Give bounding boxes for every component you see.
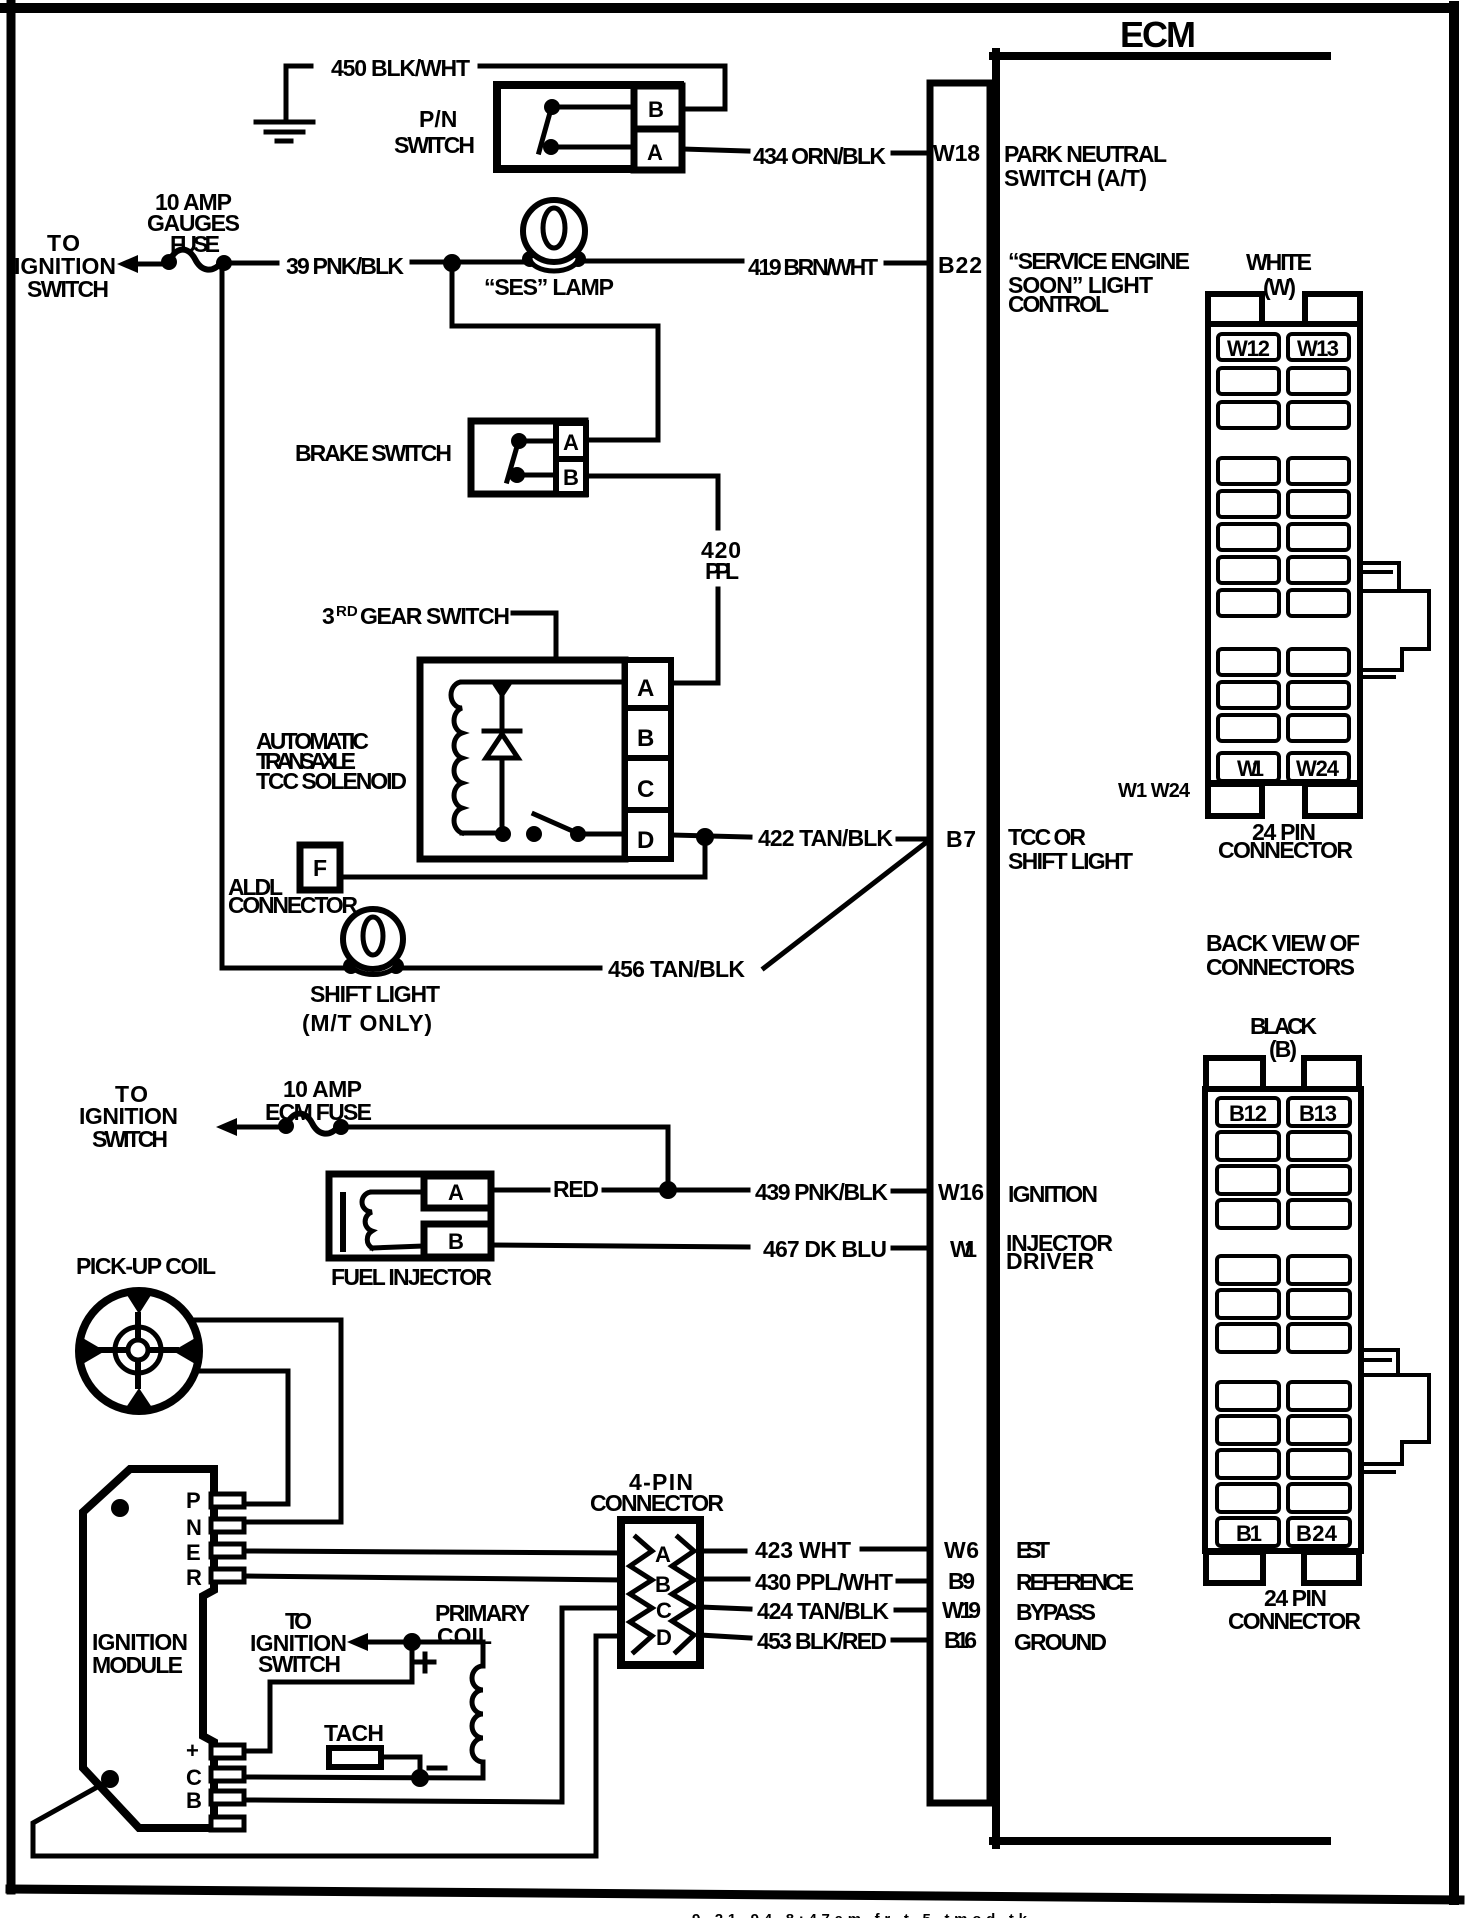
P/N switch wire contact B (557, 105, 634, 110)
svg-text:REFERENCE: REFERENCE (1016, 1569, 1134, 1595)
wire 467 DK BLU from pin B (491, 1245, 748, 1247)
wire 419 BRN/WHT stub to pin B22 (886, 261, 930, 266)
black connector cells (1217, 1098, 1350, 1546)
wire ALDL branch (341, 837, 705, 877)
wire 422 TAN/BLK stub to pin B7 (898, 837, 930, 842)
TCC solenoid pin dividers A/B/C/D (625, 705, 671, 711)
svg-text:GROUND: GROUND (1014, 1629, 1107, 1655)
ignition module mounting dot upper (111, 1499, 129, 1517)
black connector B bottom tab left (1206, 1552, 1263, 1583)
svg-text:C: C (637, 776, 654, 803)
svg-text:C: C (186, 1765, 202, 1790)
pick-up coil cross horizontal (101, 1347, 176, 1353)
SES lamp bulb circle (523, 200, 585, 262)
pick-up coil pole triangle left (81, 1337, 105, 1365)
fuse F2 10A ECM: left dot (278, 1118, 294, 1134)
SES lamp filament ellipse (543, 208, 565, 248)
svg-text:BYPASS: BYPASS (1016, 1599, 1096, 1625)
3rd gear switch lead wire (513, 613, 556, 795)
svg-text:W19: W19 (942, 1597, 981, 1623)
wire 420 PPL from brake switch B (586, 476, 718, 528)
svg-text:B13: B13 (1299, 1101, 1337, 1126)
junction dot on RED wire (659, 1181, 677, 1199)
TCC solenoid inner bottom wire (462, 831, 505, 836)
4-pin connector box (621, 1520, 700, 1665)
primary coil T1 top lead (412, 1642, 483, 1666)
primary coil T1 winding (472, 1666, 483, 1762)
svg-text:PPL: PPL (705, 558, 739, 584)
fuel injector coil bottom lead (372, 1246, 424, 1248)
page border right / ECM right edge (1449, 6, 1459, 1900)
P/N switch pin B box (634, 86, 682, 129)
svg-text:W18: W18 (933, 140, 980, 166)
svg-text:ECM: ECM (1120, 14, 1196, 55)
svg-text:PICK-UP COIL: PICK-UP COIL (76, 1253, 216, 1279)
P/N switch box (497, 85, 680, 169)
arrow to ignition switch (ECM fuse) (216, 1118, 237, 1136)
wire 420 PPL lower segment to solenoid pin A (671, 589, 718, 683)
module pin tab N (211, 1519, 244, 1532)
wire 453 BLK/RED from connector D (700, 1635, 750, 1638)
arrow to ignition switch (gauges fuse) (117, 255, 138, 273)
svg-text:TCC OR: TCC OR (1008, 824, 1086, 850)
fuel injector coil winding (362, 1192, 372, 1248)
4-pin connector right terminal zigzag (672, 1537, 694, 1652)
svg-text:3: 3 (322, 603, 335, 629)
P/N switch contact lower (543, 139, 559, 155)
pick-up coil pole triangle right (173, 1337, 197, 1365)
svg-text:(M/T ONLY): (M/T ONLY) (302, 1010, 432, 1036)
diode D1 cathode bar (484, 729, 520, 734)
svg-text:B12: B12 (1229, 1101, 1267, 1126)
wire drop from junction to brake switch (452, 263, 658, 440)
svg-text:SHIFT LIGHT: SHIFT LIGHT (310, 981, 440, 1007)
svg-text:424 TAN/BLK: 424 TAN/BLK (757, 1598, 889, 1624)
svg-text:467 DK BLU: 467 DK BLU (763, 1236, 887, 1262)
svg-text:(W): (W) (1263, 274, 1296, 300)
svg-text:C: C (656, 1598, 672, 1623)
fuel injector coil top lead (372, 1190, 424, 1195)
module pin tab E (211, 1544, 244, 1557)
black connector B body (1205, 1089, 1361, 1551)
white connector cells (1218, 334, 1349, 781)
svg-text:P: P (186, 1488, 201, 1513)
white connector W top tab left (1208, 294, 1262, 325)
junction dot 422/ALDL (696, 828, 714, 846)
svg-text:SWITCH: SWITCH (394, 132, 475, 158)
ground G1 stem wire (286, 66, 311, 122)
svg-text:ECM FUSE: ECM FUSE (265, 1099, 372, 1125)
arrow to ignition switch (coil feed) (347, 1633, 368, 1651)
wire tach to junction (381, 1757, 420, 1778)
shift lamp collar arc (351, 965, 396, 975)
svg-text:W24: W24 (1296, 756, 1340, 781)
white connector key notch (1363, 563, 1429, 677)
fuel injector box (329, 1174, 491, 1258)
fuel injector pin A box (424, 1176, 491, 1208)
wire contact to pin D (578, 832, 625, 837)
wire connector pin D riser to module ground (33, 1636, 621, 1856)
svg-text:CONNECTORS: CONNECTORS (1206, 954, 1355, 980)
shift lamp base dot left (343, 958, 359, 974)
svg-text:W1: W1 (1237, 756, 1264, 781)
wire module R to connector pin B (246, 1576, 621, 1580)
svg-text:GEAR SWITCH: GEAR SWITCH (360, 603, 510, 629)
P/N switch pin A box (634, 129, 682, 170)
module pin tab C (211, 1768, 244, 1781)
diode D1 triangle (486, 734, 518, 758)
svg-text:B: B (563, 465, 579, 490)
svg-text:B: B (186, 1788, 202, 1813)
fuse F1 10A gauges: left dot (161, 254, 177, 270)
P/N switch contact upper (544, 99, 560, 115)
fuel injector pin B box (424, 1224, 491, 1257)
svg-text:BRAKE SWITCH: BRAKE SWITCH (295, 440, 452, 466)
black connector B top tab left (1206, 1058, 1263, 1090)
svg-text:FUSE: FUSE (170, 231, 220, 257)
svg-text:B9: B9 (948, 1568, 975, 1594)
wire 453 BLK/RED stub to pin B16 (893, 1638, 930, 1643)
solenoid switch arm (534, 814, 577, 833)
svg-text:SHIFT LIGHT: SHIFT LIGHT (1008, 848, 1133, 874)
svg-text:PARK NEUTRAL: PARK NEUTRAL (1004, 141, 1167, 167)
svg-text:B: B (448, 1229, 464, 1254)
svg-text:B24: B24 (1296, 1521, 1338, 1546)
svg-text:A: A (448, 1180, 464, 1205)
svg-text:BACK VIEW OF: BACK VIEW OF (1206, 930, 1360, 956)
svg-text:422 TAN/BLK: 422 TAN/BLK (758, 825, 893, 851)
junction dot coil + feed (403, 1633, 421, 1651)
svg-text:W12: W12 (1227, 336, 1270, 361)
ECM box top edge (993, 52, 1327, 60)
svg-text:B: B (655, 1572, 671, 1597)
wire connector pin C riser to module B (246, 1608, 621, 1802)
svg-text:“SERVICE ENGINE: “SERVICE ENGINE (1008, 248, 1190, 274)
black connector B bottom tab right (1304, 1552, 1359, 1583)
fuse F1 right dot / junction to shift-light feed (216, 255, 232, 271)
page border bottom (slightly sloped scan) (10, 1889, 1460, 1900)
module pin tab plus (211, 1745, 244, 1758)
svg-text:EST: EST (1016, 1537, 1050, 1563)
black connector B top tab right (1304, 1058, 1359, 1090)
fuel injector body bar (340, 1195, 346, 1249)
module pin tab R (211, 1569, 244, 1582)
ECM box left edge (992, 52, 1000, 1845)
wire 456 TAN/BLK diagonal to pin B7 (764, 841, 928, 968)
brake switch contact upper (511, 433, 527, 449)
svg-text:B: B (637, 725, 654, 752)
brake switch pin B box (556, 459, 586, 494)
module pin tab B (211, 1791, 244, 1804)
svg-text:W13: W13 (1297, 336, 1339, 361)
pick-up coil lower lead to riser (197, 1371, 288, 1504)
pick-up coil upper lead to riser (191, 1320, 341, 1522)
diode junction marker (492, 684, 512, 699)
wire RED from pin A (491, 1188, 548, 1193)
svg-text:W16: W16 (938, 1179, 984, 1205)
svg-text:A: A (655, 1542, 671, 1567)
svg-text:434 ORN/BLK: 434 ORN/BLK (753, 143, 886, 169)
primary coil T1 bottom lead (481, 1762, 486, 1778)
pick-up coil pole triangle bottom (125, 1388, 153, 1409)
svg-text:450 BLK/WHT: 450 BLK/WHT (331, 55, 470, 81)
wire RED to 439 label (604, 1188, 748, 1193)
solenoid contact dot left (495, 826, 511, 842)
wire 439 PNK/BLK stub to pin W16 (893, 1189, 930, 1194)
shift light feed vertical wire (220, 263, 225, 968)
svg-text:A: A (647, 140, 663, 165)
svg-text:419 BRN/WHT: 419 BRN/WHT (748, 254, 878, 280)
svg-text:N: N (186, 1515, 202, 1540)
svg-text:CONTROL: CONTROL (1008, 291, 1109, 317)
wire 434 ORN/BLK left segment (682, 149, 748, 151)
brake switch wire contact B (523, 473, 556, 478)
white connector W top tab right (1305, 294, 1360, 325)
svg-text:RD: RD (336, 603, 358, 620)
plus polarity mark (417, 1654, 434, 1671)
svg-text:SWITCH: SWITCH (27, 276, 109, 302)
svg-text:W6: W6 (944, 1537, 979, 1563)
SES lamp base dot right (570, 251, 586, 267)
svg-text:B1: B1 (1236, 1521, 1262, 1546)
svg-text:456 TAN/BLK: 456 TAN/BLK (608, 956, 745, 982)
wire from ECM fuse to injector feed (345, 1127, 668, 1189)
svg-text:D: D (637, 827, 654, 854)
pick-up coil cross vertical (135, 1315, 141, 1386)
module pin tab P (211, 1494, 244, 1507)
4-pin connector left terminal zigzag (630, 1537, 652, 1652)
pick-up coil pole triangle top (125, 1292, 153, 1314)
module pin tab lower4 (211, 1817, 244, 1830)
svg-text:RED: RED (553, 1176, 599, 1202)
svg-text:CONNECTOR: CONNECTOR (590, 1490, 724, 1516)
wire 424 TAN/BLK from connector C (700, 1607, 750, 1609)
P/N switch arm (539, 109, 551, 152)
pick-up coil center circle (128, 1340, 148, 1360)
svg-text:P/N: P/N (419, 106, 457, 132)
svg-text:W1 W24: W1 W24 (1118, 780, 1191, 802)
wire 419 BRN/WHT from lamp to label (584, 259, 742, 264)
shift lamp bulb circle (343, 909, 403, 969)
pick-up coil inner circle (115, 1327, 161, 1373)
svg-text:CONNECTOR: CONNECTOR (228, 892, 358, 918)
svg-text:A: A (637, 675, 654, 702)
3rd gear switch actuator arrow (546, 782, 566, 806)
svg-text:9-21-94 8:47am fr t 5 tmod: 9-21-94 8:47am fr t 5 tmod tk (692, 1911, 1028, 1918)
svg-text:DRIVER: DRIVER (1006, 1248, 1094, 1274)
brake switch wire contact A (524, 439, 556, 444)
svg-text:W1: W1 (950, 1236, 977, 1262)
svg-text:A: A (563, 430, 579, 455)
ALDL connector pin F box (300, 845, 340, 890)
svg-text:SWITCH (A/T): SWITCH (A/T) (1004, 165, 1147, 191)
solenoid contact dot mid (526, 826, 542, 842)
white connector W bottom tab left (1208, 784, 1262, 816)
svg-text:FUEL INJECTOR: FUEL INJECTOR (331, 1264, 492, 1290)
solenoid contact dot right (570, 826, 586, 842)
svg-text:R: R (186, 1565, 202, 1590)
ECM box bottom edge (993, 1837, 1327, 1845)
svg-text:SWITCH: SWITCH (258, 1651, 341, 1677)
wire 39 PNK/BLK mid segment (412, 260, 524, 265)
wire module E to connector pin A (246, 1551, 621, 1553)
brake switch box (471, 421, 585, 494)
svg-text:F: F (313, 855, 327, 881)
svg-text:423 WHT: 423 WHT (755, 1537, 851, 1563)
TCC solenoid coil winding (451, 682, 462, 833)
wire module C to coil minus (246, 1777, 483, 1778)
shift lamp filament ellipse (363, 917, 383, 955)
P/N switch wire contact A (556, 145, 634, 150)
brake switch contact lower (509, 467, 525, 483)
fuse F1 wavy element (169, 250, 222, 270)
svg-text:SWITCH: SWITCH (92, 1126, 168, 1152)
svg-text:“SES” LAMP: “SES” LAMP (484, 274, 614, 300)
svg-text:TCC SOLENOID: TCC SOLENOID (256, 768, 407, 794)
junction dot on 39 PNK/BLK (443, 254, 461, 272)
ignition module mounting dot lower (101, 1770, 119, 1788)
ignition module U1 body outline (83, 1469, 214, 1828)
svg-text:430 PPL/WHT: 430 PPL/WHT (755, 1569, 893, 1595)
brake switch pin A box (556, 423, 586, 459)
wire 467 DK BLU stub to pin W1 (893, 1246, 930, 1251)
black connector key notch (1364, 1350, 1429, 1472)
svg-text:+: + (186, 1738, 199, 1763)
svg-text:B16: B16 (944, 1627, 977, 1653)
wire 423 WHT from connector A (700, 1549, 745, 1554)
svg-text:B7: B7 (946, 826, 976, 852)
TCC solenoid pin box column (625, 660, 671, 859)
svg-text:B22: B22 (938, 252, 982, 278)
white connector W bottom tab right (1305, 784, 1360, 816)
svg-text:E: E (186, 1540, 201, 1565)
svg-text:39 PNK/BLK: 39 PNK/BLK (286, 253, 404, 279)
svg-text:CONNECTOR: CONNECTOR (1228, 1608, 1361, 1634)
fuse F2 right dot (333, 1119, 349, 1135)
wire 434 ORN/BLK stub to pin W18 (893, 151, 930, 156)
ECM pin column (930, 83, 990, 1803)
page border top (0, 3, 1451, 13)
svg-text:COIL: COIL (437, 1623, 492, 1649)
wire 423 WHT stub to pin W6 (862, 1547, 930, 1552)
svg-text:MODULE: MODULE (92, 1652, 183, 1678)
wire 430 PPL/WHT stub to pin B9 (898, 1579, 930, 1584)
shift light wire horizontal (222, 966, 600, 971)
svg-text:B: B (648, 97, 664, 122)
wire 424 TAN/BLK stub to pin W19 (896, 1608, 930, 1613)
SES lamp base dot left (522, 251, 538, 267)
pick-up coil outer circle (79, 1291, 199, 1411)
fuse F2 wavy element (286, 1114, 339, 1134)
svg-text:439 PNK/BLK: 439 PNK/BLK (755, 1179, 888, 1205)
junction dot tach/minus (411, 1769, 429, 1787)
SES lamp collar arc (530, 258, 578, 271)
svg-text:453 BLK/RED: 453 BLK/RED (757, 1628, 887, 1654)
brake switch arm (507, 443, 518, 481)
wire junction to module plus pin (246, 1642, 412, 1751)
shift lamp base dot right (388, 958, 404, 974)
TCC solenoid inner top wire (462, 680, 625, 685)
svg-text:TACH: TACH (324, 1720, 384, 1746)
wire from fuse to 39 PNK/BLK label (228, 261, 277, 266)
svg-text:IGNITION: IGNITION (1008, 1181, 1098, 1207)
svg-text:D: D (656, 1625, 672, 1650)
wire 450 BLK/WHT right segment to P/N switch pin B (480, 66, 725, 109)
svg-text:CONNECTOR: CONNECTOR (1218, 837, 1353, 863)
svg-text:WHITE: WHITE (1246, 249, 1312, 275)
TCC solenoid outer box (420, 660, 625, 859)
svg-text:(B): (B) (1269, 1036, 1297, 1062)
tach filter box (329, 1748, 381, 1767)
minus polarity mark (429, 1766, 445, 1771)
ground G1 symbol (256, 122, 313, 141)
page border left (7, 4, 16, 1890)
wire 422 TAN/BLK from pin D (671, 835, 750, 837)
diode D1 lead (500, 684, 505, 833)
white connector W body (1208, 324, 1360, 783)
wire 430 PPL/WHT from connector B (700, 1577, 748, 1582)
